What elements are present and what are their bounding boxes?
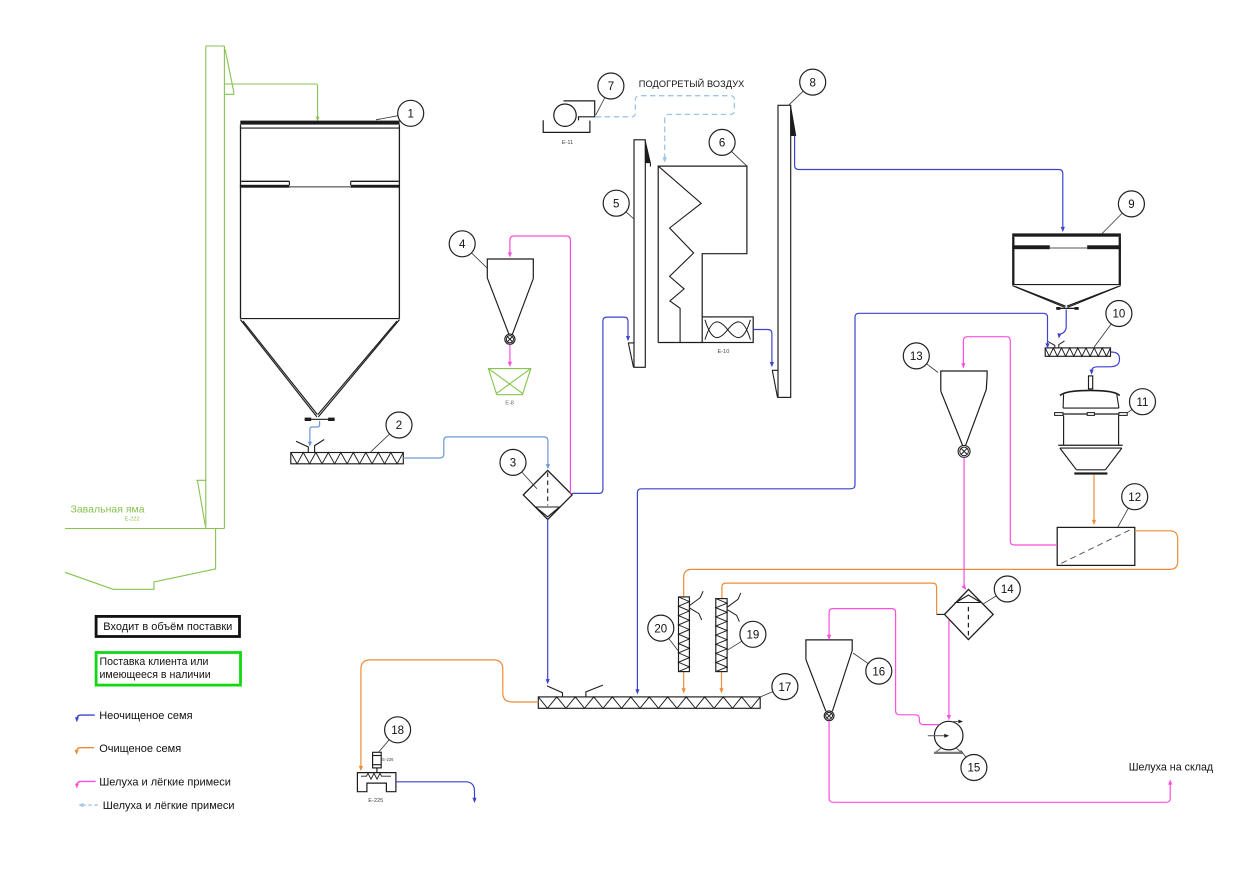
wire cyclone 13 to filter 14 (magenta): [963, 458, 965, 586]
fan 7 (E-11) scroll: [554, 104, 576, 126]
callout 1: [376, 116, 398, 120]
silo 1 level band: [241, 180, 289, 182]
filter diamond 14: [945, 589, 994, 639]
heat exchanger E-10 box: [702, 317, 753, 343]
svg-text:4: 4: [459, 239, 466, 251]
svg-text:E-226: E-226: [382, 757, 394, 762]
machine 11 drum body: [1063, 415, 1065, 445]
svg-text:11: 11: [1137, 397, 1149, 409]
legend arrow: raw seed (blue): [77, 715, 95, 719]
machine 11 flange: [1055, 413, 1128, 415]
screw conveyor 17: [538, 697, 760, 708]
svg-text:19: 19: [747, 630, 760, 642]
svg-text:13: 13: [910, 351, 923, 363]
wire machine 11 to box 12 (orange): [1093, 475, 1095, 522]
wire elevator 8 head to bin 9 (blue): [795, 136, 1063, 229]
machine 11 upper drum: [1063, 394, 1119, 408]
wire box 12 to aspirator 20 (orange, long loop): [684, 531, 1178, 597]
svg-text:18: 18: [391, 725, 404, 737]
callout 6: [732, 151, 747, 166]
cyclone 13: [941, 371, 987, 391]
svg-text:3: 3: [510, 458, 516, 470]
separator box 12: [1057, 527, 1135, 565]
callout 18: [379, 740, 390, 753]
callout 10: [1094, 324, 1111, 347]
svg-text:15: 15: [968, 763, 981, 775]
silo 1 hopper: [240, 318, 399, 320]
callout 19: [727, 641, 742, 650]
svg-text:ПОДОГРЕТЫЙ ВОЗДУХ: ПОДОГРЕТЫЙ ВОЗДУХ: [639, 78, 745, 89]
cyclone 4: [487, 259, 533, 279]
machine 11 sheller top stub: [1089, 376, 1093, 389]
wire silo 1 to conveyor 2 (light blue): [310, 421, 320, 443]
callout 8: [789, 91, 804, 105]
wire cyclone 4 to E-8 (magenta): [509, 345, 511, 364]
cyclone 16 rotary airlock: [824, 711, 834, 721]
callout 17: [760, 692, 773, 697]
callout 14: [984, 596, 997, 604]
svg-text:E-225: E-225: [368, 798, 383, 804]
svg-text:Очищеное семя: Очищеное семя: [99, 743, 181, 755]
conveyor 2 inlet funnel: [296, 441, 308, 452]
conveyor 17 inlet funnel: [547, 686, 563, 697]
svg-text:Входит в объём поставки: Входит в объём поставки: [103, 621, 232, 633]
svg-text:E-222: E-222: [125, 517, 140, 523]
wire aspirator 19 / filter 14 (orange): [722, 583, 937, 614]
wire box 12 to cyclone 13 (magenta): [963, 337, 1057, 545]
wire filter 3 to elevator 5 boot (blue): [572, 317, 628, 493]
cyclone 4 rotary airlock: [505, 334, 515, 344]
svg-text:17: 17: [779, 682, 792, 694]
bin 9 hopper: [1012, 284, 1121, 286]
callout 15: [961, 750, 966, 757]
elevator 8 head spout: [791, 106, 796, 135]
bin 9 level band: [1012, 245, 1050, 249]
fan 15 base: [934, 752, 963, 754]
svg-text:E-8: E-8: [505, 400, 514, 406]
wire aspirator 19 to conveyor 17 (orange): [721, 672, 723, 690]
svg-text:1: 1: [407, 109, 413, 121]
aspirator 20 column: [679, 597, 690, 672]
callout 7: [596, 98, 605, 115]
bucket elevator 8: [778, 105, 791, 397]
wire conveyor 10 to machine 11 (blue): [1092, 352, 1120, 371]
svg-text:Поставка клиента или: Поставка клиента или: [100, 656, 209, 668]
dashed heated-air duct from fan 7 to heater 6: [596, 96, 735, 159]
aspirator 19 branches: [727, 593, 741, 622]
green pit top line: [65, 528, 224, 530]
svg-text:9: 9: [1128, 199, 1134, 211]
bin 9: [1012, 233, 1121, 236]
screw conveyor 10: [1045, 348, 1110, 356]
callout 2: [371, 434, 390, 452]
svg-text:16: 16: [872, 666, 885, 678]
elevator 8 boot spout: [772, 370, 778, 397]
aspirator 19 column: [716, 599, 727, 672]
conveyor 10 inlet funnel: [1048, 342, 1055, 348]
callout 16: [853, 653, 868, 664]
callout 9: [1102, 213, 1122, 234]
callout 11: [1127, 409, 1132, 413]
callout 12: [1118, 508, 1129, 527]
svg-text:6: 6: [719, 138, 725, 150]
fan 7 base: [543, 120, 590, 132]
bucket elevator 5: [634, 140, 645, 367]
bin 9 outlet: [1057, 307, 1079, 309]
callout 13: [927, 364, 938, 373]
green feed wire to silo 1 with arrow: [225, 84, 318, 118]
fan 15: [934, 721, 963, 750]
elevator 5 boot spout: [628, 343, 634, 367]
svg-text:E-11: E-11: [562, 140, 573, 146]
wire aspirator 20 to conveyor 17 (orange): [683, 672, 685, 690]
cyclone 13 rotary airlock: [958, 445, 970, 457]
callout 3: [522, 472, 537, 489]
machine 11 outlet: [1076, 469, 1105, 471]
unit E-225 (pos 18): [357, 773, 396, 792]
svg-text:20: 20: [654, 623, 667, 635]
green receiving elevator E-222 columns: [205, 46, 207, 529]
filter diamond 3: [523, 470, 572, 519]
wire filter 14 to fan 15 (magenta): [948, 620, 950, 716]
green elevator head spout: [224, 49, 234, 94]
heater 6 outline: [658, 166, 747, 342]
wire E-10 to elevator 8 boot (blue): [753, 330, 772, 364]
wire E-225 out (blue): [396, 782, 475, 799]
svg-text:Неочищеное семя: Неочищеное семя: [99, 710, 192, 722]
E-8 green hopper trapezoid: [488, 369, 530, 395]
green elevator boot inlet spout: [196, 480, 206, 525]
svg-text:5: 5: [613, 198, 619, 210]
wire filter 3 up to cyclone 4 (magenta): [510, 236, 571, 494]
screw conveyor 2: [291, 453, 404, 464]
wire filter 3 down to conveyor 17 (blue): [547, 519, 549, 680]
silo 1: [240, 121, 399, 125]
cyclone 16: [806, 640, 852, 660]
wire conveyor 2 to filter 3 (light blue): [403, 437, 548, 466]
silo 1 outlet flange: [305, 418, 335, 420]
callout 5: [626, 212, 634, 219]
wire cyclone 16 to fan 15 (magenta): [829, 609, 939, 725]
svg-text:8: 8: [809, 77, 815, 89]
machine 11 dome: [1060, 390, 1120, 395]
elevator 5 head spout: [645, 141, 650, 163]
svg-text:14: 14: [1001, 584, 1014, 596]
heater 6 heating zigzag element: [658, 166, 701, 342]
legend arrow: husks (magenta): [77, 781, 96, 785]
wire conveyor 17 from E-225 (orange): [361, 660, 538, 767]
machine 11 cone: [1060, 447, 1122, 449]
svg-text:Шелуха и лёгкие примеси: Шелуха и лёгкие примеси: [103, 800, 235, 812]
svg-text:12: 12: [1128, 492, 1141, 504]
magnetic separator E-226: [373, 752, 382, 768]
svg-text:имеющееся в наличии: имеющееся в наличии: [100, 669, 211, 681]
svg-text:Шелуха на склад: Шелуха на склад: [1129, 762, 1214, 774]
green receiving pit outline: [65, 529, 216, 590]
svg-text:Завальная яма: Завальная яма: [71, 504, 145, 516]
legend arrow: husks air (dashed blue): [84, 804, 98, 806]
aspirator 20 branches: [689, 591, 703, 620]
legend: client-supply box: [96, 653, 240, 686]
wire overflow to conveyor 17 (blue, long): [637, 313, 1047, 690]
legend: scope-of-supply box: [96, 616, 239, 636]
svg-text:10: 10: [1113, 309, 1126, 321]
svg-text:Шелуха и лёгкие примеси: Шелуха и лёгкие примеси: [99, 777, 231, 789]
wire bin 9 to conveyor 10 (blue): [1059, 310, 1066, 335]
callout 20: [669, 638, 679, 651]
svg-text:2: 2: [396, 420, 402, 432]
svg-text:E-10: E-10: [718, 349, 730, 355]
svg-text:7: 7: [608, 81, 614, 93]
legend arrow: cleaned seed (orange): [77, 748, 94, 752]
wire cyclone 16 to storage (magenta): [829, 721, 1170, 803]
callout 4: [472, 253, 488, 268]
